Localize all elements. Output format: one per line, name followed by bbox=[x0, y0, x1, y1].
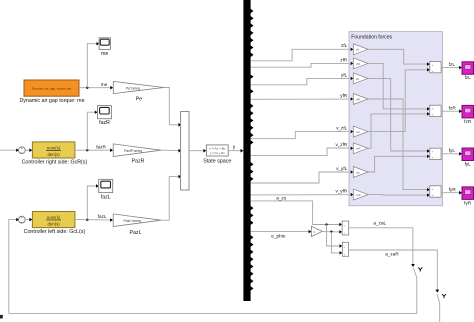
gain PazL bbox=[113, 214, 161, 227]
wire zfL bbox=[251, 49, 352, 61]
wire fyL bbox=[441, 153, 460, 155]
to-file block fyR bbox=[462, 187, 474, 200]
svg-text:PazR: PazR bbox=[132, 159, 145, 165]
wire me bbox=[79, 87, 111, 89]
demux output port arrows bbox=[250, 9, 253, 291]
svg-text:–: – bbox=[20, 220, 22, 224]
from-file: Dynamic air gap torque bbox=[24, 80, 79, 96]
svg-text:State space: State space bbox=[203, 158, 231, 164]
gain e_phis bbox=[311, 226, 322, 236]
svg-text:y = Cx + Du: y = Cx + Du bbox=[210, 151, 225, 155]
svg-text:Foundation forces: Foundation forces bbox=[351, 34, 392, 40]
svg-text:fazR: fazR bbox=[99, 120, 110, 126]
gain dzfR bbox=[351, 62, 354, 65]
wire a_zaR bbox=[349, 250, 438, 290]
svg-text:PazL: PazL bbox=[129, 230, 141, 236]
sum block a_zaR bbox=[342, 242, 348, 256]
wire PazR to mux bbox=[161, 149, 180, 151]
svg-text:Controller left side: GcL(s): Controller left side: GcL(s) bbox=[24, 229, 86, 235]
svg-text:me: me bbox=[101, 82, 108, 87]
wire branch to lower sum bbox=[331, 232, 340, 253]
svg-text:v_yfR: v_yfR bbox=[335, 189, 347, 194]
sum block fyR bbox=[430, 186, 441, 197]
wire switch1 down/left feedback bbox=[9, 278, 417, 314]
svg-text:vzR: vzR bbox=[356, 147, 361, 151]
svg-text:e_phis: e_phis bbox=[271, 234, 285, 239]
svg-text:fyL: fyL bbox=[449, 148, 456, 153]
wire fzR bbox=[441, 110, 460, 112]
gain dzfL bbox=[351, 48, 354, 51]
wire bbox=[368, 63, 428, 109]
transfer fcn: Controller left side GcL(s) bbox=[32, 212, 75, 228]
svg-text:Dynamic air gap torque: me: Dynamic air gap torque: me bbox=[19, 98, 84, 104]
wire Pe to mux input 1 bbox=[164, 88, 180, 125]
svg-text:zfL: zfL bbox=[341, 43, 348, 48]
scope me bbox=[99, 38, 110, 50]
wire sum1 to controller right bbox=[25, 149, 30, 151]
wire fazL bbox=[75, 219, 111, 221]
svg-text:fzR: fzR bbox=[449, 105, 457, 110]
wire v_zfL bbox=[251, 132, 352, 139]
wire PazL to mux input 3 bbox=[161, 177, 180, 221]
svg-text:+: + bbox=[432, 113, 434, 117]
wire branch to scope me bbox=[87, 44, 97, 88]
wire v_zfR bbox=[251, 148, 352, 156]
svg-text:x' = Ax + Bu: x' = Ax + Bu bbox=[209, 146, 225, 150]
svg-text:fyR: fyR bbox=[449, 187, 457, 192]
svg-text:fzL: fzL bbox=[465, 75, 472, 80]
to-file block fyL bbox=[462, 148, 474, 161]
svg-text:Pe*omeg: Pe*omeg bbox=[126, 86, 140, 90]
svg-text:fazL: fazL bbox=[98, 214, 107, 219]
wire a_zaL bbox=[349, 228, 413, 265]
gain dyfL bbox=[351, 77, 354, 80]
svg-text:+: + bbox=[432, 156, 434, 160]
svg-text:zfL: zfL bbox=[355, 48, 360, 52]
svg-text:fyR: fyR bbox=[464, 200, 472, 205]
svg-text:–: – bbox=[20, 151, 22, 155]
svg-text:den(s): den(s) bbox=[48, 222, 61, 227]
svg-text:fazL: fazL bbox=[101, 194, 111, 200]
svg-text:yfR: yfR bbox=[340, 93, 348, 98]
gain dvyR bbox=[351, 193, 354, 196]
svg-text:PazL*omeg: PazL*omeg bbox=[124, 219, 142, 223]
svg-text:zfR: zfR bbox=[340, 57, 348, 62]
Foundation forces area bbox=[349, 32, 443, 206]
svg-text:+: + bbox=[432, 69, 434, 73]
svg-text:num(s): num(s) bbox=[47, 215, 61, 220]
svg-text:Dynamic_air_gap_torque.mat: Dynamic_air_gap_torque.mat bbox=[32, 87, 72, 91]
wire feedback into right-side sum bbox=[0, 149, 18, 151]
svg-text:v_yfL: v_yfL bbox=[336, 166, 347, 171]
wire bbox=[368, 49, 428, 64]
gain dvyL bbox=[351, 170, 354, 173]
to-file block fzR bbox=[462, 105, 474, 118]
gain Pe bbox=[113, 81, 164, 93]
wire zfR bbox=[251, 63, 352, 67]
svg-text:yfL: yfL bbox=[341, 72, 348, 77]
svg-text:Pe: Pe bbox=[136, 97, 143, 103]
svg-text:fzL: fzL bbox=[449, 62, 456, 67]
wire bbox=[368, 99, 428, 190]
gain dvzL bbox=[351, 130, 354, 133]
wire gain out bbox=[322, 231, 340, 233]
sum junction S2 (left controller) bbox=[18, 216, 25, 223]
state-space block bbox=[206, 145, 228, 156]
wire a_zs branch to lower sum bbox=[327, 225, 341, 247]
sum block fzR bbox=[430, 105, 441, 116]
manual switch 2 bbox=[442, 294, 446, 296]
svg-text:PazR*omeg: PazR*omeg bbox=[124, 149, 142, 153]
sum junction S1 (right controller) bbox=[18, 147, 25, 154]
svg-text:zfR: zfR bbox=[355, 62, 360, 66]
svg-text:vyL: vyL bbox=[356, 170, 361, 174]
wire v_yfL bbox=[251, 172, 352, 183]
mux bbox=[181, 112, 189, 191]
svg-text:den(s): den(s) bbox=[48, 152, 61, 157]
scope fazR bbox=[98, 106, 112, 119]
svg-text:v_zfL: v_zfL bbox=[336, 126, 347, 131]
svg-text:num(s): num(s) bbox=[47, 145, 61, 150]
svg-text:Controller right side: GcR(s): Controller right side: GcR(s) bbox=[22, 160, 88, 166]
svg-text:+: + bbox=[432, 63, 434, 67]
svg-text:yfR: yfR bbox=[355, 97, 360, 101]
sum block fzL bbox=[430, 61, 441, 72]
wire fyR bbox=[441, 192, 460, 194]
svg-text:me: me bbox=[101, 51, 108, 57]
svg-text:v_zfR: v_zfR bbox=[335, 142, 347, 147]
svg-text:a_zs: a_zs bbox=[276, 195, 287, 200]
transfer fcn: Controller right side GcR(s) bbox=[32, 142, 75, 158]
svg-text:fzR: fzR bbox=[464, 119, 472, 124]
svg-text:+: + bbox=[432, 107, 434, 111]
svg-text:+: + bbox=[432, 193, 434, 197]
svg-text:+: + bbox=[432, 187, 434, 191]
wire branch to scope fazR bbox=[87, 112, 95, 150]
wire yfL bbox=[251, 78, 352, 84]
gain dyfR bbox=[351, 97, 354, 100]
wire e_phis bbox=[251, 231, 310, 233]
wire fazR bbox=[75, 149, 111, 151]
wire branch to scope fazL bbox=[87, 186, 97, 220]
wire yfR bbox=[251, 98, 352, 100]
wire bbox=[368, 114, 428, 148]
demux bar bbox=[243, 0, 250, 301]
svg-text:vyR: vyR bbox=[356, 193, 361, 197]
wire fzL bbox=[441, 67, 460, 69]
wire v_yfR bbox=[251, 194, 352, 196]
svg-text:a_zaL: a_zaL bbox=[373, 220, 386, 225]
gain PazR bbox=[113, 144, 161, 157]
svg-text:fyL: fyL bbox=[465, 161, 472, 166]
wire sum2 to controller left bbox=[25, 219, 30, 221]
sum block fyL bbox=[430, 148, 441, 159]
svg-text:fazR: fazR bbox=[96, 145, 106, 150]
gain dvzR bbox=[351, 147, 354, 150]
wire y to demux bbox=[228, 150, 241, 152]
wire bbox=[368, 156, 428, 172]
svg-text:vzL: vzL bbox=[356, 130, 361, 134]
wire a_zs bbox=[251, 201, 341, 225]
wire feedback into left-side sum bbox=[9, 220, 18, 314]
sum block a_zaL bbox=[342, 221, 349, 235]
wire switch2 down bbox=[439, 303, 441, 322]
wire bbox=[368, 70, 428, 132]
svg-text:yfL: yfL bbox=[355, 77, 360, 81]
to-file block fzL bbox=[462, 62, 474, 75]
wire bbox=[368, 78, 428, 151]
svg-text:+: + bbox=[432, 150, 434, 154]
cropped block bottom-left bbox=[0, 315, 3, 319]
svg-text:a_zaR: a_zaR bbox=[385, 251, 399, 256]
manual switch 1 bbox=[418, 267, 422, 269]
scope fazL bbox=[99, 179, 113, 192]
wire mux to state space bbox=[189, 150, 204, 152]
wire bbox=[368, 194, 428, 197]
